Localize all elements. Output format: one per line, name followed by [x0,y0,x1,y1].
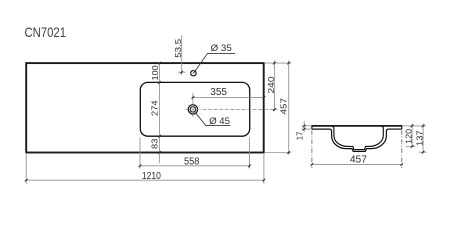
section slab bottom left [312,128,330,130]
drain centerline dashed to right [202,109,277,111]
tick at bottom edge [158,151,161,154]
dim 120 tick top [411,125,414,128]
dim 457 section line [312,163,402,165]
ext line 1210 right [263,154,265,184]
svg-text:457: 457 [279,98,289,115]
dim 558 tick right [248,165,251,168]
dim 355 tick left [192,96,195,99]
tick at basin top [158,81,161,84]
dim 137 tick top [422,125,425,128]
drain centermark vertical [192,105,194,117]
tick at top edge [158,62,161,65]
section ext dashdot right [401,130,403,168]
svg-text:558: 558 [184,156,200,167]
section ext dashdot left [311,130,313,168]
leader O45 [196,113,231,125]
leader O35 [194,53,235,73]
section bowl outer profile [330,129,388,151]
svg-text:100: 100 [150,65,160,81]
dim 120 tick bottom [411,145,414,148]
dim 17 tick bottom [303,128,306,131]
dim 137 ext bottom [419,151,427,153]
ext line section top right [403,125,426,127]
dim 1210 tick right [263,179,266,182]
section slab top [312,125,402,127]
dim 457 right line [288,60,290,155]
svg-text:CN7021: CN7021 [25,25,67,40]
dim 53.5 ext [178,71,186,73]
dim 355 ext from drain [192,93,194,104]
dim 1210 tick left [25,179,28,182]
dim chain line 100/274/83 [159,62,161,163]
dim 457 right tick top [287,62,290,65]
svg-text:240: 240 [266,76,276,93]
basin rounded rectangle [140,82,249,136]
dim 120 line [411,123,413,146]
svg-text:355: 355 [210,87,227,98]
ext line bottom right corner [265,152,291,154]
dim 1210 line [26,179,264,181]
faucet hole [191,71,196,76]
section slab right end [401,125,403,129]
dim 53.5 line [181,36,183,75]
dim 457 right tick bottom [287,151,290,154]
svg-text:274: 274 [150,100,160,116]
ext line 558 right [249,138,251,169]
tick at basin bottom [158,135,161,138]
svg-text:120: 120 [404,129,414,144]
drain hole inner [190,107,195,112]
svg-text:1210: 1210 [142,171,161,182]
dim 17 tick top [303,125,306,128]
drain centermark horizontal [186,109,201,111]
dim 137 line [422,123,424,152]
svg-text:Ø 35: Ø 35 [211,43,232,54]
svg-text:83: 83 [149,138,159,149]
dim 17 ext bottom [302,128,312,130]
dim 17 line [303,121,305,132]
dim 240 tick top [273,62,276,65]
drain hole outer [188,105,197,114]
svg-text:137: 137 [415,130,425,146]
dim 120 ext bottom [406,145,415,147]
faucet hole centermarks [190,70,197,77]
svg-text:Ø 45: Ø 45 [209,116,230,127]
dim 17 ext top [302,125,312,127]
dim 355 tick right [263,96,266,99]
ext line 558 left [139,138,141,169]
dim 558 tick left [139,165,142,168]
dim 137 tick bottom [422,151,425,154]
svg-text:457: 457 [350,155,368,166]
dim 355 line [193,96,264,98]
dim 457 section tick left [311,163,314,166]
svg-text:17: 17 [294,131,304,140]
section slab bottom right [388,128,402,130]
dim 53.5 tick [180,71,183,74]
ext line top right corner [265,62,291,64]
dim 240 tick bottom [273,108,276,111]
ext line 1210 left [25,154,27,184]
dim 240 line [273,60,275,111]
dim 457 section tick right [401,163,404,166]
svg-text:53.5: 53.5 [173,38,183,57]
dim 558 line [140,165,250,167]
section bowl inner profile [332,126,383,149]
countertop outline (top view) [26,63,264,152]
section slab left end [311,125,313,129]
